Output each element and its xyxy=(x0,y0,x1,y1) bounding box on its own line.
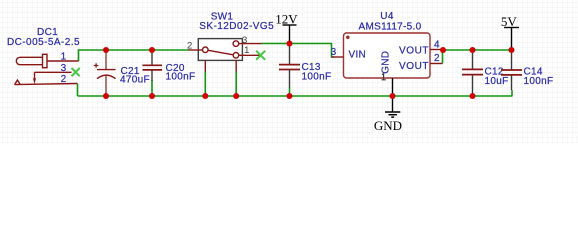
power flag 12V xyxy=(289,25,291,44)
svg-text:VIN: VIN xyxy=(349,50,367,61)
SW1 pin 2 line xyxy=(189,49,203,51)
junction dot 5V xyxy=(509,47,515,53)
svg-text:4: 4 xyxy=(434,40,440,51)
junction dot SW bracket left xyxy=(202,93,208,99)
junction dot VOUT xyxy=(440,47,446,53)
wire 12V rail right to VIN xyxy=(262,44,335,58)
junction dot C13 bottom xyxy=(287,93,293,99)
U4 pin 4 line xyxy=(430,49,443,51)
U4 pin 2 line xyxy=(430,63,443,65)
svg-text:10uF: 10uF xyxy=(485,76,509,87)
U4 pin 1 line (GND) xyxy=(392,78,394,96)
svg-text:1: 1 xyxy=(244,45,249,56)
wire SW1 bracket left to GND xyxy=(204,71,206,96)
SW1 pin 1 line xyxy=(239,54,261,56)
wire SW1 bracket right to GND xyxy=(235,71,237,96)
SW1 bracket stubs xyxy=(204,60,206,71)
svg-text:AMS1117-5.0: AMS1117-5.0 xyxy=(359,22,422,33)
svg-text:3: 3 xyxy=(331,47,337,58)
svg-text:2: 2 xyxy=(61,74,67,85)
SW1 contact circle pin1 xyxy=(233,53,239,59)
SW1 pin 3 line xyxy=(239,43,262,45)
junction dot C12 bottom xyxy=(470,93,476,99)
svg-text:VOUT: VOUT xyxy=(399,61,429,72)
pin number 1 of U4 rotated xyxy=(382,73,386,80)
junction dot C21 bottom xyxy=(103,93,109,99)
svg-text:100nF: 100nF xyxy=(166,72,196,83)
svg-text:12V: 12V xyxy=(275,11,298,26)
no-connect X on DC1 pin 3 xyxy=(72,68,80,76)
svg-text:GND: GND xyxy=(381,51,392,74)
svg-text:3: 3 xyxy=(61,63,67,74)
svg-text:GND: GND xyxy=(374,118,402,133)
svg-text:470uF: 470uF xyxy=(120,75,150,86)
regulator U4 body xyxy=(344,33,431,78)
wire C20 bottom to GND xyxy=(151,80,153,96)
arrow of DC1 pin3 lever xyxy=(33,78,36,84)
SW1 contact circle pin2 xyxy=(203,47,209,53)
U4 pin1 marker dot xyxy=(346,36,350,40)
wire GND bottom rail xyxy=(78,95,513,97)
svg-text:SK-12D02-VG5: SK-12D02-VG5 xyxy=(199,21,274,32)
svg-text:100nF: 100nF xyxy=(302,72,332,83)
svg-text:2: 2 xyxy=(187,40,192,51)
wire DC1 pin2 down xyxy=(77,84,79,96)
capacitor C13 xyxy=(279,44,300,88)
svg-text:DC-005-5A-2.5: DC-005-5A-2.5 xyxy=(7,37,80,48)
junction dot C20 top xyxy=(149,47,155,53)
SW1 contact circle pin3 xyxy=(233,41,239,47)
capacitor C21 polarized xyxy=(94,50,116,96)
wire C14 bottom to GND xyxy=(511,90,513,96)
wire 12V rail left xyxy=(79,50,190,61)
svg-text:VOUT: VOUT xyxy=(399,45,429,56)
wire 5V output rail xyxy=(443,49,512,51)
capacitor C14 xyxy=(501,50,522,90)
no-connect X on SW1 pin 1 xyxy=(256,51,265,60)
wire C13 bottom to GND xyxy=(289,87,291,96)
svg-text:5V: 5V xyxy=(501,14,518,29)
junction dot SW bracket right xyxy=(233,93,239,99)
U4 pin 3 line xyxy=(332,56,344,58)
svg-text:1: 1 xyxy=(61,51,67,62)
capacitor C20 xyxy=(143,50,163,81)
junction dot 12V xyxy=(287,41,293,47)
junction dot C20 bottom xyxy=(149,93,155,99)
junction dot U4 GND xyxy=(390,93,396,99)
connector DC1 xyxy=(15,54,79,84)
junction dot C12 top xyxy=(470,47,476,53)
capacitor C12 xyxy=(462,50,483,96)
svg-text:2: 2 xyxy=(434,53,440,64)
junction dot C21 top xyxy=(103,47,109,53)
ground symbol xyxy=(392,96,394,112)
switch SW1 body xyxy=(198,39,242,61)
SW1 lever xyxy=(208,50,233,55)
wire VOUT pin2 link xyxy=(442,50,444,64)
svg-text:100nF: 100nF xyxy=(524,76,554,87)
power flag 5V xyxy=(511,28,513,51)
